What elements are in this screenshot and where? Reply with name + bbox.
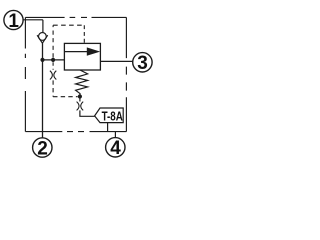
- pilot line dashed horizontal top: [53, 24, 84, 26]
- flow path arrow line: [64, 51, 89, 53]
- enclosure top edge: [25, 16, 126, 18]
- node junction dot2: [51, 58, 55, 62]
- svg-text:T-8A: T-8A: [102, 109, 124, 124]
- valve box U1 envelope: [64, 43, 100, 70]
- flow path arrowhead: [87, 47, 100, 55]
- port circle 3: [133, 53, 152, 72]
- enclosure bottom edge: [25, 131, 126, 133]
- enclosure right edge: [125, 17, 127, 131]
- wire port4 stub: [114, 132, 116, 138]
- pilot line dashed drop to valve box top: [83, 25, 85, 43]
- wire port1 horizontal from circle 1: [23, 19, 43, 21]
- svg-text:4: 4: [110, 138, 121, 159]
- wire valve box outlet to port 3: [100, 60, 133, 62]
- wire check valve to junction: [42, 43, 44, 60]
- pilot line dashed below orifice: [53, 80, 78, 96]
- banner T-8A flag outline: [95, 108, 124, 123]
- port circle 1: [4, 10, 23, 29]
- node junction dot1: [40, 58, 44, 62]
- svg-text:2: 2: [37, 138, 48, 159]
- check valve ball: [39, 33, 47, 41]
- orifice pilot: [50, 71, 56, 80]
- enclosure left edge: [24, 17, 26, 131]
- port circle 4: [106, 138, 125, 157]
- wire drop to check valve: [42, 20, 44, 33]
- svg-text:3: 3: [137, 53, 148, 74]
- wire junction to valve box: [43, 59, 65, 61]
- orifice drain: [77, 102, 84, 111]
- node spring junction dot: [78, 94, 82, 98]
- wire orifice to banner point: [80, 98, 95, 116]
- pilot line dashed up from dot2: [52, 25, 54, 57]
- wire port2 vertical down to circle 2: [42, 60, 44, 138]
- port circle 2: [33, 138, 52, 157]
- banner stub to bottom wire: [107, 123, 109, 132]
- pilot line dashed down from dot2: [52, 62, 54, 70]
- spring: [76, 70, 88, 95]
- svg-text:1: 1: [8, 11, 19, 32]
- check valve seat: [37, 35, 48, 43]
